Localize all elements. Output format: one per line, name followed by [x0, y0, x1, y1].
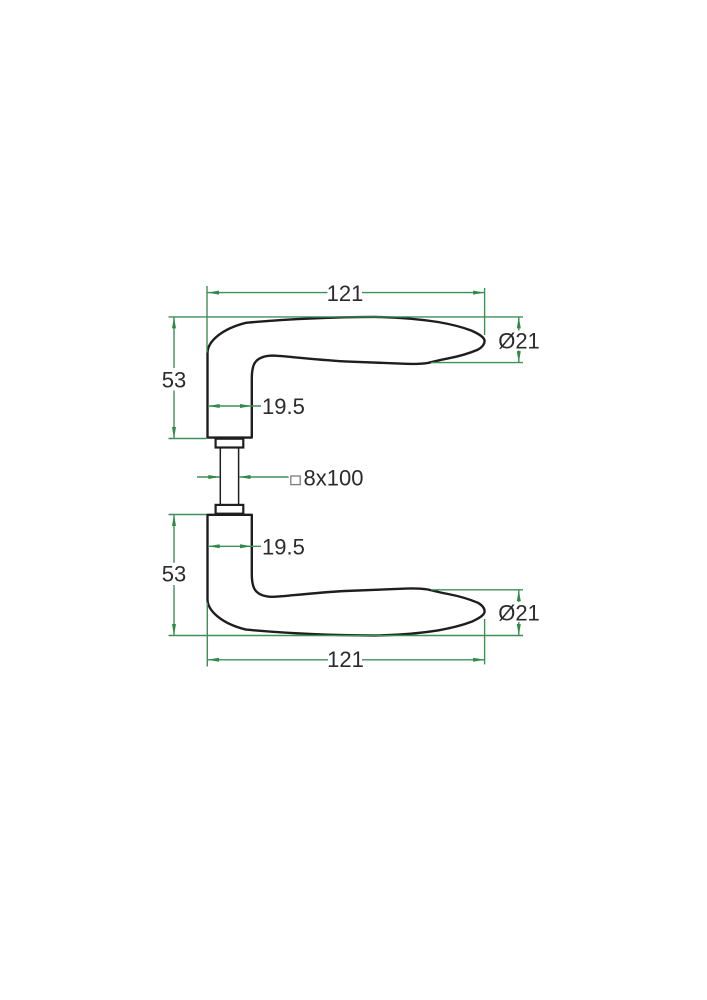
dim O21 top [431, 362, 523, 364]
square symbol [291, 476, 300, 485]
lower rose flange [216, 505, 244, 514]
dim 19.5 bottom [208, 545, 261, 547]
dim 121 bottom: dimension line [208, 659, 329, 661]
spindle shaft right line [238, 448, 240, 505]
shared extension line top (53 top / O21 top) [169, 316, 524, 318]
spindle shaft left line [219, 448, 221, 505]
dim 53 bottom [173, 515, 175, 563]
svg-text:53: 53 [162, 562, 186, 587]
dim 121 bottom: extension lines [206, 603, 208, 667]
svg-text:Ø21: Ø21 [498, 329, 540, 354]
svg-text:53: 53 [162, 367, 186, 392]
dim 121 top: extension lines [206, 286, 208, 353]
dim 53 top [173, 317, 175, 368]
svg-text:19.5: 19.5 [262, 535, 305, 560]
upper rose flange [216, 439, 244, 448]
svg-text:121: 121 [327, 647, 364, 672]
svg-text:8x100: 8x100 [304, 465, 364, 490]
dim 121 top: dimension line [208, 292, 328, 294]
lower lever handle outline (mirror) [208, 515, 485, 636]
shared extension line bottom (53 bottom / O21 bottom) [169, 635, 524, 637]
dim 19.5 top [208, 405, 261, 407]
svg-text:121: 121 [327, 281, 364, 306]
svg-text:Ø21: Ø21 [498, 600, 540, 625]
svg-text:19.5: 19.5 [262, 394, 305, 419]
dim square 8x100 spindle [197, 476, 220, 478]
upper lever handle outline [208, 317, 485, 438]
dim O21 bottom [431, 589, 523, 591]
